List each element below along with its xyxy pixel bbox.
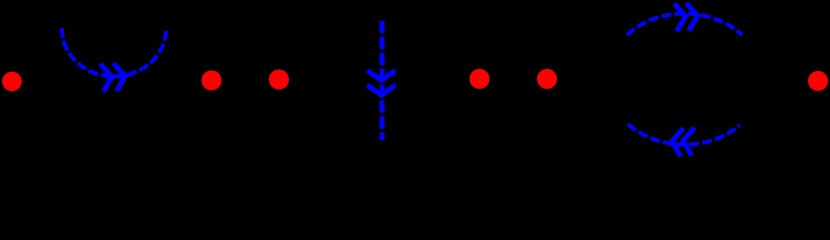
vertical push arrow (blue dashed line, figure 2) bbox=[380, 21, 385, 140]
node P3 (red marked point) bbox=[269, 70, 289, 90]
arrowhead chevron 1 on push arc bbox=[100, 63, 113, 92]
node P1 (red marked point, far left) bbox=[2, 72, 22, 92]
arrowhead chevron 1 on vertical arrow (down) bbox=[367, 70, 395, 80]
push arc (blue dashed half-ellipse, figure 1) bbox=[62, 28, 166, 76]
arrowhead chevron 2 on push arc bbox=[114, 62, 127, 91]
loop top arc (blue dashed, figure 3) bbox=[627, 14, 742, 35]
arrowhead chevron 2 on vertical arrow (down) bbox=[367, 85, 395, 95]
arrowhead chevron 2 on loop bottom arc (left) bbox=[682, 127, 695, 156]
node P2 (red marked point) bbox=[202, 70, 222, 90]
arrowhead chevron 1 on loop top arc (right) bbox=[674, 3, 686, 32]
node P6 (red marked point, far right) bbox=[808, 71, 828, 91]
arrowhead chevron 1 on loop bottom arc (left) bbox=[670, 127, 683, 156]
arrowhead chevron 2 on loop top arc (right) bbox=[686, 2, 698, 31]
node P4 (red marked point) bbox=[470, 69, 490, 89]
node P5 (red marked point) bbox=[537, 69, 557, 89]
loop bottom arc (blue dashed, figure 3) bbox=[628, 124, 740, 145]
